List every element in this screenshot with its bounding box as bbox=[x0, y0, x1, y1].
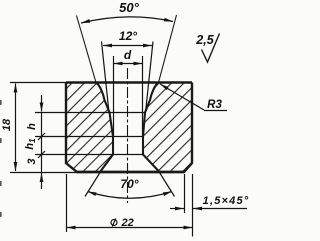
chain arrow top bbox=[41, 95, 43, 112]
transition line h1 bbox=[35, 136, 144, 138]
d extension left bbox=[113, 56, 115, 137]
hatch right solid bbox=[143, 83, 192, 173]
chamfer dim arrow right with shelf bbox=[193, 208, 247, 210]
body outline bbox=[66, 83, 192, 173]
svg-text:h: h bbox=[26, 123, 38, 130]
svg-text:1,5×45°: 1,5×45° bbox=[203, 195, 250, 207]
chain dim line bbox=[41, 112, 43, 172]
bottom face extension left bbox=[10, 172, 77, 174]
top face line bbox=[66, 81, 192, 83]
svg-text:d: d bbox=[124, 48, 132, 62]
12deg dimension bbox=[103, 45, 152, 47]
edge artifact marks bbox=[0, 100, 2, 105]
phi22 dimension bbox=[67, 227, 193, 229]
70deg arc dimension bbox=[88, 192, 173, 199]
dimension 18 bbox=[15, 84, 17, 172]
svg-text:70°: 70° bbox=[120, 177, 138, 191]
slash terminator h1/3 bbox=[38, 151, 45, 158]
top face extension left bbox=[10, 82, 66, 84]
chamfer dim arrow left bbox=[170, 208, 184, 210]
svg-text:18: 18 bbox=[1, 118, 13, 131]
12deg extension left bbox=[102, 42, 110, 113]
phi22 extension right bbox=[192, 174, 194, 237]
hole left wall bbox=[96, 83, 113, 173]
svg-text:3: 3 bbox=[26, 158, 38, 164]
bottom face line bbox=[77, 171, 184, 173]
hatch left solid bbox=[66, 83, 113, 173]
svg-text:12°: 12° bbox=[119, 29, 137, 43]
svg-text:R3: R3 bbox=[207, 99, 222, 111]
R3 leader bbox=[160, 84, 204, 110]
70deg extension left bbox=[85, 173, 100, 197]
phi22 extension left bbox=[66, 174, 68, 232]
slash terminator h/h1 bbox=[38, 133, 45, 140]
50deg extension right bbox=[159, 15, 177, 83]
12deg extension right bbox=[146, 42, 154, 113]
roughness checkmark bbox=[202, 34, 220, 63]
svg-text:50°: 50° bbox=[119, 0, 139, 15]
50deg arc dimension bbox=[81, 17, 173, 23]
chamfer extension bbox=[184, 174, 186, 213]
R3 shelf bbox=[204, 110, 227, 112]
70deg extension right bbox=[160, 173, 175, 197]
transition line h bbox=[35, 112, 145, 114]
chain arrow bottom bbox=[41, 173, 43, 189]
d dimension bbox=[114, 63, 143, 65]
hole right wall bbox=[143, 83, 160, 173]
50deg extension left bbox=[77, 16, 97, 83]
transition line 3 bbox=[35, 154, 144, 156]
centerline bbox=[127, 68, 129, 203]
svg-text:22: 22 bbox=[121, 217, 134, 229]
phi22 label bbox=[111, 217, 134, 229]
d extension right bbox=[142, 56, 144, 137]
svg-text:2,5: 2,5 bbox=[195, 33, 214, 47]
